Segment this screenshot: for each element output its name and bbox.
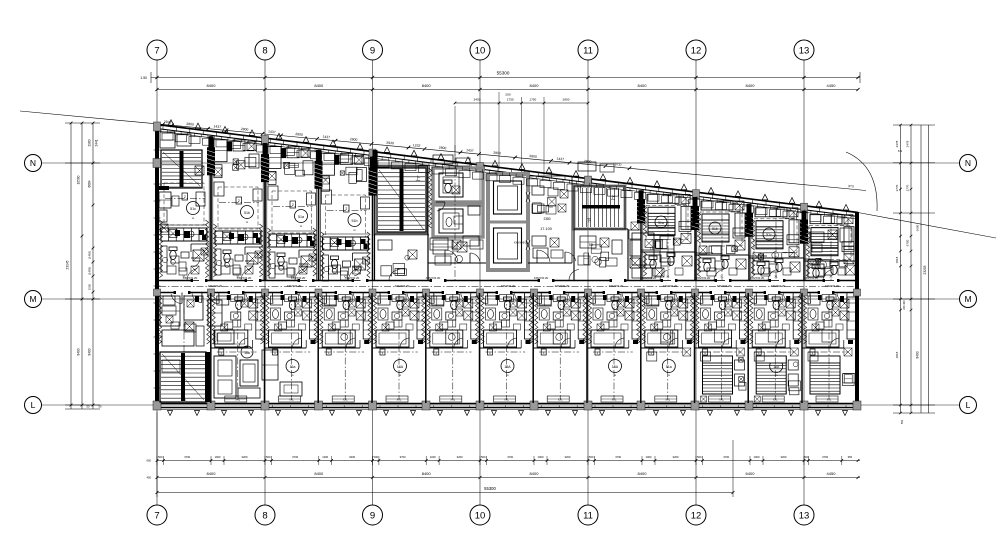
lower unit label circle 16A bbox=[394, 360, 407, 378]
lower unit 5 party wall bbox=[368, 293, 372, 403]
lower unit 13 party wall bbox=[798, 293, 802, 403]
lower unit 11 entry door bbox=[692, 293, 703, 304]
svg-text:8400: 8400 bbox=[314, 83, 324, 88]
lower unit 4 window mullions bbox=[326, 406, 362, 408]
machine room fixtures bbox=[436, 180, 463, 226]
svg-text:上: 上 bbox=[611, 194, 616, 200]
lower unit 12 bathroom cluster bbox=[748, 296, 802, 355]
svg-text:8400: 8400 bbox=[916, 351, 920, 358]
grid bubble 9 top bbox=[363, 40, 383, 60]
right dimension lines bbox=[893, 124, 935, 424]
svg-text:2850: 2850 bbox=[563, 98, 570, 102]
lower unit 8 party wall bbox=[529, 293, 533, 403]
lower unit label circle 51a bbox=[662, 360, 675, 378]
top dimension line grid spans 8400 bbox=[155, 83, 859, 91]
lower unit 3 entry door bbox=[262, 293, 273, 304]
stair B zone densify bbox=[578, 162, 674, 278]
svg-text:3600: 3600 bbox=[916, 224, 920, 231]
grid vertical lines 7-13 bbox=[157, 60, 804, 505]
svg-text:上: 上 bbox=[415, 175, 420, 182]
upper unit 51c room dashed outline bbox=[164, 183, 204, 225]
lower unit 1 party wall bbox=[0, 0, 1, 1]
svg-text:X1: X1 bbox=[774, 275, 778, 279]
svg-text:3200: 3200 bbox=[565, 455, 571, 459]
svg-text:XX6/XX0.2N: XX6/XX0.2N bbox=[663, 284, 678, 288]
svg-text:XX6/XX0.2N: XX6/XX0.2N bbox=[825, 284, 840, 288]
svg-text:1000: 1000 bbox=[430, 455, 436, 459]
elevator zone densify bbox=[530, 176, 572, 263]
svg-text:L: L bbox=[966, 400, 971, 410]
svg-text:6684: 6684 bbox=[88, 180, 92, 187]
lower unit 8 bathroom cluster bbox=[533, 296, 587, 355]
svg-text:51b: 51b bbox=[712, 227, 718, 231]
svg-text:8400: 8400 bbox=[746, 83, 756, 88]
upper right unit 3 party wall bbox=[749, 204, 751, 281]
building bottom wall with windows bbox=[155, 404, 859, 410]
svg-text:3700: 3700 bbox=[822, 455, 828, 459]
svg-text:7: 7 bbox=[154, 510, 159, 521]
upper right unit 4 entry door bbox=[823, 270, 834, 281]
lower units closet row below corridor bbox=[227, 295, 836, 302]
lower unit 2 party wall bbox=[207, 293, 211, 403]
svg-text:M: M bbox=[29, 294, 36, 304]
svg-text:200 400: 200 400 bbox=[902, 300, 906, 310]
svg-text:11: 11 bbox=[583, 510, 593, 521]
lower unit 6 entry door bbox=[423, 293, 434, 304]
svg-text:XX6/XX0.2N: XX6/XX0.2N bbox=[534, 276, 549, 280]
svg-text:450: 450 bbox=[147, 476, 152, 480]
svg-text:51a: 51a bbox=[298, 215, 304, 219]
black wall stubs crossing N zone bbox=[208, 137, 321, 185]
svg-text:13: 13 bbox=[799, 510, 810, 521]
upper right unit 3 bed bbox=[756, 221, 783, 249]
svg-text:(1459): (1459) bbox=[88, 267, 92, 275]
lower unit 11 bathroom cluster bbox=[695, 296, 749, 355]
lower unit 13 window mullions bbox=[810, 406, 846, 408]
lower units densify bbox=[158, 293, 202, 402]
svg-text:8: 8 bbox=[262, 510, 267, 521]
grid bubble L right bbox=[960, 397, 977, 414]
svg-text:(1493): (1493) bbox=[88, 251, 92, 259]
svg-text:2800: 2800 bbox=[529, 154, 537, 159]
lower unit 13 entry door bbox=[799, 293, 810, 304]
lower unit 9 window mullions bbox=[595, 406, 631, 408]
left dimension lines bbox=[65, 122, 102, 409]
bottom dimension row detailed bbox=[147, 455, 860, 465]
svg-text:16a: 16a bbox=[290, 365, 296, 369]
svg-text:55300: 55300 bbox=[484, 486, 496, 491]
lower unit 6 party wall bbox=[422, 293, 426, 403]
svg-text:16A: 16A bbox=[397, 365, 404, 369]
upper unit 51c party walls bbox=[159, 136, 213, 280]
elevator shafts bbox=[488, 174, 530, 270]
svg-text:XX6/XX0.2N: XX6/XX0.2N bbox=[609, 284, 624, 288]
lower unit 4 bathroom cluster bbox=[318, 296, 372, 355]
svg-text:2: 2 bbox=[184, 195, 186, 199]
svg-text:2: 2 bbox=[292, 203, 294, 207]
svg-text:8400: 8400 bbox=[530, 471, 540, 476]
grid bubble 11 bottom bbox=[578, 505, 598, 525]
svg-text:2380: 2380 bbox=[543, 217, 550, 221]
unit label circle 51b bbox=[241, 206, 254, 225]
lower left units extra furniture bbox=[162, 300, 302, 396]
svg-text:12: 12 bbox=[691, 510, 702, 521]
lower unit 2 entry door bbox=[208, 293, 219, 304]
lower unit 4 entry door bbox=[315, 293, 326, 304]
svg-text:15A: 15A bbox=[504, 365, 511, 369]
lower unit 4 party wall bbox=[314, 293, 318, 403]
svg-text:4450: 4450 bbox=[827, 83, 837, 88]
upper right unit label circle bbox=[763, 228, 775, 240]
top dimension line overall 55300 bbox=[140, 71, 860, 84]
lobby lower walls bbox=[428, 145, 486, 280]
top small dimension chain 3450 1750 1750 2850 bbox=[454, 92, 590, 175]
upper unit 51b dashdot and tag bbox=[327, 205, 367, 212]
upper unit 51a party walls bbox=[263, 143, 321, 280]
svg-text:1B: 1B bbox=[650, 247, 655, 251]
svg-text:9: 9 bbox=[370, 510, 375, 521]
upper right unit 2 bathroom bbox=[695, 255, 749, 277]
lower units extra fixtures bbox=[271, 308, 854, 344]
svg-text:(972): (972) bbox=[613, 162, 621, 167]
lower unit 12 party wall bbox=[744, 293, 748, 403]
duct shaft bbox=[630, 240, 641, 268]
grid bubble L left bbox=[25, 397, 42, 414]
upper unit 51b bathroom bbox=[215, 247, 263, 275]
upper right unit 4 wardrobe bbox=[810, 215, 853, 224]
grid bubble 7 bottom bbox=[147, 505, 167, 525]
svg-text:6400: 6400 bbox=[746, 471, 756, 476]
lower unit 2 bathroom cluster bbox=[211, 296, 265, 355]
grid bubble 11 top bbox=[578, 40, 598, 60]
svg-text:L: L bbox=[31, 400, 36, 410]
svg-text:M: M bbox=[964, 294, 971, 304]
grid bubble 7 top bbox=[147, 40, 167, 60]
svg-text:1500: 1500 bbox=[88, 283, 92, 290]
svg-text:2441: 2441 bbox=[95, 139, 99, 146]
grid bubble 10 bottom bbox=[470, 505, 490, 525]
svg-text:500: 500 bbox=[697, 455, 702, 459]
svg-text:51b: 51b bbox=[244, 211, 250, 215]
svg-text:16a: 16a bbox=[244, 351, 250, 355]
upper band kitchen front edge lines bbox=[161, 241, 369, 250]
lower units window sill radiators bbox=[225, 396, 838, 402]
svg-text:1000: 1000 bbox=[215, 455, 221, 459]
upper unit 51b left wall boxes bbox=[214, 168, 262, 201]
lower unit 10 window mullions bbox=[649, 406, 685, 408]
staircase A walls bbox=[373, 150, 428, 234]
svg-text:9: 9 bbox=[370, 45, 375, 56]
columns at N line bbox=[153, 159, 377, 168]
upper unit 51a closet top bbox=[268, 146, 313, 184]
svg-text:55300: 55300 bbox=[497, 71, 510, 76]
svg-text:8400: 8400 bbox=[88, 348, 92, 355]
lower mid units counters bbox=[322, 296, 350, 344]
upper unit 51b closet top bbox=[214, 140, 259, 178]
svg-text:2: 2 bbox=[345, 207, 347, 211]
upper right unit 3 bathroom bbox=[749, 258, 804, 277]
svg-text:6750: 6750 bbox=[906, 239, 910, 246]
svg-text:X1: X1 bbox=[720, 275, 724, 279]
grid bubble 8 top bbox=[255, 40, 275, 60]
lower right unit 12 bed bbox=[756, 356, 800, 395]
svg-text:1437: 1437 bbox=[556, 157, 564, 162]
corridor wall upper bbox=[159, 280, 855, 282]
building outer wall right bbox=[855, 212, 859, 405]
lower unit 7 window mullions bbox=[488, 406, 524, 408]
unit label circle 51c bbox=[187, 202, 200, 221]
svg-text:200: 200 bbox=[505, 93, 510, 97]
upper unit 51b entry door bbox=[344, 269, 361, 281]
lower unit 11 party wall bbox=[690, 293, 694, 403]
svg-text:XX6/XX0.2N: XX6/XX0.2N bbox=[717, 284, 732, 288]
svg-text:15A: 15A bbox=[612, 365, 619, 369]
svg-text:XX6/XX0.2N: XX6/XX0.2N bbox=[771, 284, 786, 288]
lower right unit 11 bed bbox=[703, 356, 747, 394]
svg-text:13: 13 bbox=[799, 45, 810, 56]
upper right unit 4 side furniture bbox=[816, 216, 854, 280]
right corner angle arc bbox=[846, 149, 902, 211]
party wall duct shafts upper bbox=[207, 147, 808, 243]
svg-text:8400: 8400 bbox=[638, 471, 648, 476]
svg-text:2478: 2478 bbox=[895, 140, 899, 147]
grid horizontal lines N M L bbox=[42, 163, 960, 405]
corridor room number labels bbox=[183, 276, 840, 288]
building top slanted facade wall bbox=[157, 125, 858, 220]
svg-text:1232: 1232 bbox=[413, 143, 421, 148]
right wing construction line bbox=[858, 213, 996, 239]
upper right unit 4 party wall bbox=[804, 211, 806, 281]
upper unit 51b room dashed outline bbox=[326, 195, 366, 237]
facade inner window sill marks bbox=[161, 129, 851, 219]
svg-text:8400: 8400 bbox=[422, 83, 432, 88]
lower stair unit closets bbox=[160, 296, 204, 346]
lower stair cell extra bbox=[162, 306, 210, 402]
corridor wall lower bbox=[154, 289, 861, 296]
svg-text:1750: 1750 bbox=[529, 98, 536, 102]
lower unit 7 bathroom cluster bbox=[480, 296, 534, 355]
svg-text:1000: 1000 bbox=[322, 455, 328, 459]
upper right unit 3 side furniture bbox=[758, 209, 799, 280]
rooms below staircase B bbox=[569, 229, 655, 281]
top facade columns at grid bbox=[154, 122, 808, 212]
svg-text:2800: 2800 bbox=[186, 122, 194, 127]
svg-text:8400: 8400 bbox=[77, 348, 81, 355]
svg-text:1437: 1437 bbox=[466, 148, 474, 153]
rightmost upper unit densify bbox=[810, 228, 854, 254]
svg-text:2800: 2800 bbox=[493, 151, 501, 156]
svg-text:1437: 1437 bbox=[322, 135, 330, 140]
svg-text:51b: 51b bbox=[352, 219, 358, 223]
lower unit label circle 16a bbox=[286, 360, 299, 378]
upper unit 51c kitchen counter bbox=[161, 228, 207, 241]
lower right units beds and tables bbox=[701, 360, 745, 402]
svg-text:8400: 8400 bbox=[207, 471, 217, 476]
svg-text:X1: X1 bbox=[829, 275, 833, 279]
svg-text:2930: 2930 bbox=[386, 141, 394, 146]
svg-text:2800: 2800 bbox=[584, 159, 592, 164]
lower unit 8 window mullions bbox=[541, 406, 577, 408]
svg-text:XX6/XX0.2N: XX6/XX0.2N bbox=[208, 284, 223, 288]
upper unit 51b bathroom bbox=[323, 253, 371, 281]
upper right unit label circle bbox=[655, 216, 667, 228]
upper right unit 3 entry door bbox=[768, 270, 779, 281]
svg-text:4450: 4450 bbox=[827, 471, 837, 476]
svg-text:3700: 3700 bbox=[507, 455, 513, 459]
svg-text:3450: 3450 bbox=[474, 98, 481, 102]
upper unit 51b kitchen counter bbox=[323, 237, 369, 250]
staircase B treads bbox=[579, 188, 621, 227]
svg-text:1750: 1750 bbox=[507, 98, 514, 102]
lower unit 7 entry door bbox=[477, 293, 488, 304]
upper unit 51c bathroom bbox=[161, 244, 209, 272]
upper unit 51c stair block bbox=[160, 132, 204, 188]
upper unit 51b party walls bbox=[209, 136, 267, 280]
machine room walls bbox=[433, 168, 483, 237]
grid bubble 12 top bbox=[686, 40, 706, 60]
svg-text:1000: 1000 bbox=[754, 455, 760, 459]
upper units backsplash lines bbox=[161, 225, 369, 234]
lower unit 9 bathroom cluster bbox=[587, 296, 641, 355]
svg-text:XXL: XXL bbox=[182, 399, 187, 402]
upper unit 51a room dashed outline bbox=[272, 191, 312, 233]
grid bubble M left bbox=[25, 291, 42, 308]
upper right unit 1 bathroom bbox=[641, 252, 695, 276]
upper right unit 2 wardrobe bbox=[701, 201, 744, 210]
lower unit 7 party wall bbox=[475, 293, 479, 403]
upper right unit 2 bed bbox=[702, 214, 729, 242]
corridor centre dashline bbox=[159, 286, 855, 288]
grid bubble M right bbox=[960, 291, 977, 308]
svg-text:17.100: 17.100 bbox=[540, 227, 552, 231]
top facade window triangles bbox=[168, 120, 849, 210]
svg-text:10: 10 bbox=[475, 45, 486, 56]
lower unit 10 bathroom cluster bbox=[641, 296, 695, 355]
svg-text:3700: 3700 bbox=[292, 455, 298, 459]
upper unit 51a entry door bbox=[290, 269, 307, 281]
upper units lower fixture row bbox=[167, 266, 846, 276]
svg-text:3700: 3700 bbox=[615, 455, 621, 459]
upper right unit 2 side furniture bbox=[712, 202, 745, 280]
staircase B walls bbox=[574, 186, 625, 229]
grid bubble 10 top bbox=[470, 40, 490, 60]
svg-text:N: N bbox=[30, 158, 36, 168]
lower unit 5 entry door bbox=[369, 293, 380, 304]
svg-text:8400: 8400 bbox=[638, 83, 648, 88]
lower right unit 13 bed bbox=[810, 356, 856, 394]
svg-text:500: 500 bbox=[373, 455, 378, 459]
upper unit 51b closet top bbox=[322, 153, 367, 191]
svg-text:8: 8 bbox=[262, 45, 267, 56]
upper right unit 4 bathroom bbox=[804, 261, 858, 278]
upper unit 51c entry door bbox=[182, 269, 199, 281]
lower units mid fixtures row bbox=[221, 320, 843, 331]
upper unit 51c wall boxes bbox=[159, 186, 205, 232]
svg-text:51c: 51c bbox=[766, 233, 772, 237]
lower unit label circle 16A bbox=[770, 360, 783, 378]
building outer wall left bbox=[154, 124, 161, 405]
grid bubble N right bbox=[960, 155, 977, 172]
svg-text:N: N bbox=[965, 158, 971, 168]
upper unit 51b entry door bbox=[236, 269, 253, 281]
lower unit 9 party wall bbox=[583, 293, 587, 403]
upper mid-right densify 2 bbox=[433, 204, 641, 266]
svg-text:2800: 2800 bbox=[295, 132, 303, 137]
upper left bath extra bbox=[162, 248, 369, 272]
bottom facade drain triangles bbox=[168, 411, 848, 416]
upper unit 51a kitchen counter bbox=[269, 234, 315, 247]
svg-text:650: 650 bbox=[147, 459, 152, 463]
room below staircase A bbox=[375, 234, 429, 281]
lower unit label circle 15A bbox=[609, 360, 622, 378]
svg-text:2478: 2478 bbox=[906, 140, 910, 147]
upper right unit 1 side furniture bbox=[655, 196, 691, 281]
bottom dimension row overall 55300 bbox=[156, 412, 735, 497]
lower right cells extra density bbox=[647, 330, 852, 361]
svg-text:3770: 3770 bbox=[895, 184, 899, 191]
svg-text:XX: XX bbox=[549, 205, 553, 209]
svg-text:500: 500 bbox=[481, 455, 486, 459]
grid bubble 9 bottom bbox=[363, 505, 383, 525]
upper right unit 4 bed bbox=[811, 228, 838, 256]
svg-text:XX6/XX0.2N: XX6/XX0.2N bbox=[555, 284, 570, 288]
svg-text:XX6/XX6/2N: XX6/XX6/2N bbox=[514, 241, 529, 245]
svg-text:1000: 1000 bbox=[646, 455, 652, 459]
svg-text:XX6/XX0.2N: XX6/XX0.2N bbox=[696, 276, 711, 280]
upper right unit 1 wardrobe bbox=[647, 194, 690, 203]
lower unit 3 window mullions bbox=[273, 406, 309, 408]
svg-text:3200: 3200 bbox=[457, 455, 463, 459]
slanted dimension line along top facade bbox=[20, 111, 866, 191]
svg-text:23145: 23145 bbox=[66, 260, 70, 269]
svg-text:3700: 3700 bbox=[400, 455, 406, 459]
lower unit 6 window mullions bbox=[434, 406, 470, 408]
svg-text:X1: X1 bbox=[666, 275, 670, 279]
svg-text:1818: 1818 bbox=[895, 256, 899, 263]
svg-text:8400: 8400 bbox=[530, 83, 540, 88]
svg-text:1818: 1818 bbox=[895, 351, 899, 358]
lower unit 11 window mullions bbox=[703, 406, 739, 408]
svg-text:500: 500 bbox=[589, 455, 594, 459]
grid bubble 8 bottom bbox=[255, 505, 275, 525]
lower unit 5 bathroom cluster bbox=[372, 296, 426, 355]
svg-text:12: 12 bbox=[691, 45, 702, 56]
kitchen row dark accents bbox=[175, 230, 368, 249]
svg-text:550: 550 bbox=[900, 419, 904, 424]
upper unit 51b room dashed outline bbox=[218, 187, 258, 229]
lower unit 8 entry door bbox=[530, 293, 541, 304]
lower unit 10 party wall bbox=[637, 293, 641, 403]
svg-text:500: 500 bbox=[266, 455, 271, 459]
upper unit 51a bathroom bbox=[269, 250, 317, 278]
lower unit 6 bathroom cluster bbox=[426, 296, 480, 355]
upper unit 51a left wall boxes bbox=[268, 172, 316, 205]
corridor door jamb blocks bbox=[174, 279, 840, 294]
svg-text:2800: 2800 bbox=[241, 127, 249, 132]
svg-text:8400: 8400 bbox=[207, 83, 217, 88]
svg-text:6.9: 6.9 bbox=[898, 149, 903, 153]
upper unit 51a dashdot and tag bbox=[273, 201, 313, 208]
upper right unit 2 party wall bbox=[695, 197, 697, 281]
svg-text:3200: 3200 bbox=[781, 455, 787, 459]
upper unit 51b left wall boxes bbox=[322, 176, 370, 209]
elevator lobby texts bbox=[514, 217, 552, 245]
svg-text:11: 11 bbox=[583, 45, 593, 56]
unit label circle 51b bbox=[348, 214, 361, 233]
upper right unit 1 party wall bbox=[641, 190, 643, 280]
upper unit 51b kitchen counter bbox=[215, 231, 261, 244]
staircase A treads bbox=[377, 168, 426, 232]
